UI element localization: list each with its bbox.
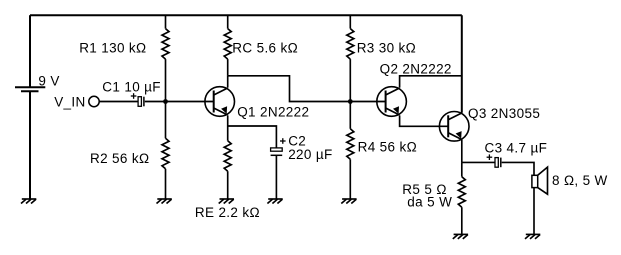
wire [227, 59, 229, 76]
capacitor C3 [495, 158, 498, 168]
wire [461, 140, 463, 163]
wire [165, 102, 167, 139]
svg-text:Q2 2N2222: Q2 2N2222 [380, 62, 452, 77]
svg-text:RC 5.6 kΩ: RC 5.6 kΩ [232, 41, 298, 56]
svg-text:Q3 2N3055: Q3 2N3055 [468, 106, 540, 121]
svg-text:Q1 2N2222: Q1 2N2222 [237, 104, 309, 119]
wire [228, 126, 277, 148]
wire [29, 15, 31, 87]
wire [349, 15, 351, 28]
terminal V_IN [89, 96, 99, 106]
svg-text:R1 130 kΩ: R1 130 kΩ [79, 41, 146, 56]
svg-text:220 µF: 220 µF [288, 147, 332, 162]
resistor R5 [458, 177, 465, 208]
resistor RE [224, 141, 231, 172]
transistor Q1 [205, 87, 235, 117]
wire [349, 159, 351, 199]
ground [454, 233, 469, 235]
svg-text:9 V: 9 V [38, 74, 59, 89]
ground [342, 198, 357, 200]
svg-text:R2 56 kΩ: R2 56 kΩ [90, 151, 149, 166]
wire [227, 171, 229, 199]
svg-text:R3 30 kΩ: R3 30 kΩ [357, 40, 416, 55]
wire [461, 162, 463, 176]
wire [349, 102, 351, 129]
transistor Q2 [377, 87, 407, 117]
ground [526, 233, 541, 235]
node Q2 base [348, 99, 353, 104]
wire [502, 162, 534, 175]
wire [227, 15, 229, 28]
wire [145, 101, 214, 103]
wire [228, 76, 386, 102]
wire [165, 59, 167, 101]
svg-text:8 Ω, 5 W: 8 Ω, 5 W [552, 173, 608, 188]
battery B1 [15, 86, 45, 88]
capacitor C2 [271, 148, 283, 151]
wire [99, 101, 138, 103]
svg-text:V_IN: V_IN [54, 95, 85, 110]
wire [275, 155, 277, 199]
plus C2 [280, 140, 286, 142]
wire [165, 169, 167, 199]
capacitor C1 [138, 97, 141, 107]
svg-text:R4 56 kΩ: R4 56 kΩ [358, 140, 417, 155]
node base divider [163, 99, 168, 104]
plus C1 [131, 95, 137, 97]
svg-text:C3 4.7 µF: C3 4.7 µF [485, 140, 548, 155]
resistor RC [224, 29, 231, 59]
resistor R2 [162, 138, 169, 169]
ground [22, 198, 37, 200]
wire [461, 15, 463, 113]
svg-text:RE 2.2 kΩ: RE 2.2 kΩ [195, 205, 260, 220]
svg-text:C1 10 µF: C1 10 µF [102, 80, 161, 95]
wire [349, 59, 351, 101]
wire [462, 161, 495, 163]
wire [400, 76, 462, 88]
ground [157, 198, 172, 200]
wire [533, 188, 535, 235]
resistor R1 [162, 29, 169, 59]
wire [30, 14, 462, 16]
wire [227, 76, 229, 88]
resistor R3 [347, 29, 354, 59]
ground [268, 198, 283, 200]
speaker LS1 [538, 167, 548, 194]
wire [165, 15, 167, 28]
ground [220, 198, 235, 200]
wire [461, 207, 463, 234]
svg-text:da 5 W: da 5 W [407, 194, 452, 209]
wire [400, 115, 449, 126]
resistor R4 [347, 129, 354, 160]
wire [29, 91, 31, 199]
wire [227, 115, 229, 140]
transistor Q3 [439, 112, 469, 142]
plus C3 [487, 156, 493, 158]
